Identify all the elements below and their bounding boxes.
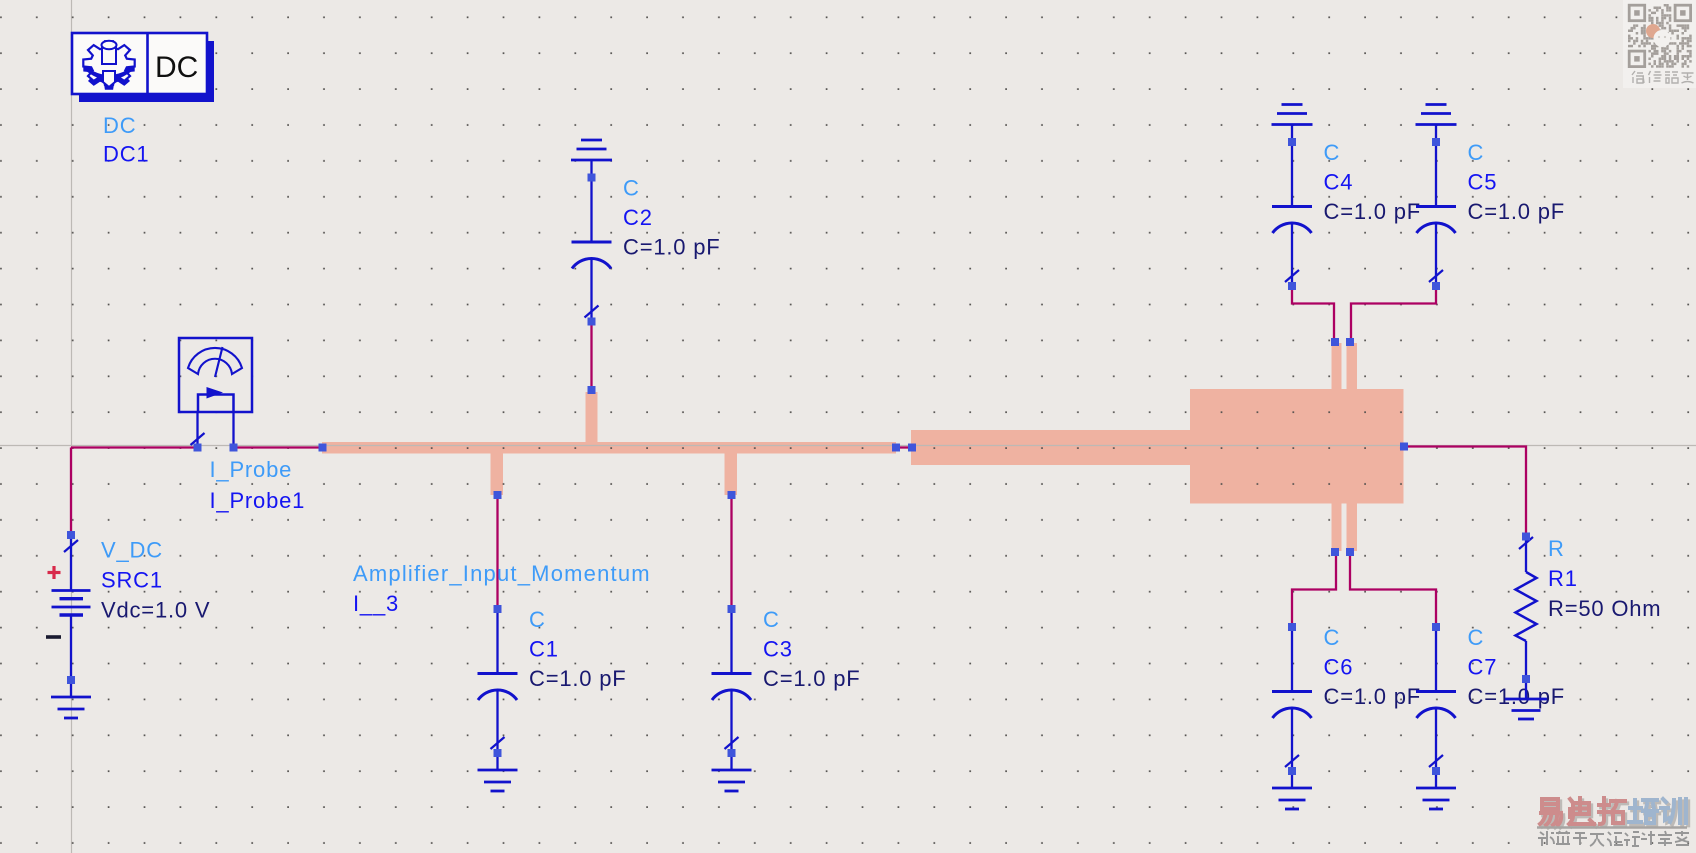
wire: [71, 446, 198, 448]
microstrip shunt stub up (to C2): [586, 392, 598, 444]
capacitor C1: [478, 609, 518, 753]
node: [1432, 138, 1440, 146]
wire: [730, 495, 732, 609]
svg-text:C: C: [1468, 625, 1485, 650]
capacitor C5: [1416, 142, 1456, 286]
wire: [234, 446, 323, 448]
training logo: [1540, 798, 1688, 827]
svg-text:I_Probe1: I_Probe1: [210, 488, 306, 513]
wire: [896, 446, 912, 448]
DC gear icon: [83, 41, 134, 90]
node: [728, 749, 736, 757]
schematic Y axis: [71, 0, 73, 853]
svg-text:C7: C7: [1468, 655, 1498, 680]
WeChat caption: [1632, 71, 1694, 83]
node: [1331, 548, 1339, 556]
svg-text:SRC1: SRC1: [101, 568, 163, 593]
svg-text:C=1.0 pF: C=1.0 pF: [529, 666, 627, 691]
svg-text:V_DC: V_DC: [101, 538, 163, 563]
svg-text:R1: R1: [1548, 566, 1578, 591]
DC simulation controller block: [72, 33, 214, 102]
node: [1522, 533, 1530, 541]
wire: [1350, 552, 1436, 627]
momentum patch block: [1190, 389, 1404, 504]
current probe I_Probe1: [179, 338, 252, 448]
svg-text:C5: C5: [1468, 170, 1498, 195]
ground for R1: [1505, 679, 1547, 719]
node: [67, 531, 75, 539]
plus sign: [48, 566, 61, 579]
capacitor C3: [712, 609, 752, 753]
svg-text:C: C: [623, 176, 640, 201]
svg-text:DC1: DC1: [103, 142, 149, 167]
node: [494, 605, 502, 613]
svg-text:C: C: [529, 607, 546, 632]
minus sign: [46, 635, 61, 639]
ground for C5: [1416, 105, 1457, 143]
svg-text:I_Probe: I_Probe: [210, 457, 293, 482]
capacitor C6: [1272, 627, 1312, 771]
ground for SRC1: [51, 680, 91, 718]
node: [1288, 282, 1296, 290]
svg-text:C=1.0 pF: C=1.0 pF: [1324, 684, 1422, 709]
capacitor C4: [1272, 142, 1312, 286]
microstrip thin input line: [322, 442, 896, 454]
node: [1400, 443, 1408, 451]
svg-text:C: C: [1324, 625, 1341, 650]
voltage source V_DC SRC1: [52, 535, 91, 680]
svg-text:Vdc=1.0 V: Vdc=1.0 V: [101, 598, 210, 623]
QR code overlay: [1623, 0, 1696, 88]
svg-text:C: C: [1468, 140, 1485, 165]
microstrip shunt stub down (to C3): [725, 453, 738, 495]
wire: [1404, 447, 1526, 537]
svg-text:C2: C2: [623, 205, 653, 230]
node: [494, 749, 502, 757]
ground for C6: [1272, 771, 1312, 809]
svg-text:C1: C1: [529, 637, 559, 662]
node: [319, 444, 327, 452]
node: [892, 444, 900, 452]
ground for C4: [1272, 105, 1313, 143]
patch bottom stub 2: [1347, 503, 1358, 551]
svg-text:C=1.0 pF: C=1.0 pF: [1324, 199, 1422, 224]
node: [1432, 767, 1440, 775]
node: [1288, 138, 1296, 146]
node: [1346, 548, 1354, 556]
ground for C7: [1416, 771, 1456, 809]
node: [728, 605, 736, 613]
microstrip shunt stub down (to C1): [491, 453, 504, 495]
node: [728, 491, 736, 499]
microstrip wide mid line: [911, 430, 1191, 465]
logo char xun: [1663, 801, 1688, 825]
node: [194, 444, 202, 452]
patch bottom stub 1: [1332, 503, 1342, 551]
resistor R1: [1516, 537, 1537, 680]
logo char di: [1571, 800, 1596, 826]
node: [588, 318, 596, 326]
node: [67, 676, 75, 684]
node: [908, 444, 916, 452]
ground for C3: [712, 753, 752, 791]
patch top stub 2: [1347, 343, 1358, 390]
wire: [70, 448, 72, 536]
node: [588, 386, 596, 394]
node: [1346, 338, 1354, 346]
svg-text:C: C: [763, 607, 780, 632]
patch top stub 1: [1332, 343, 1342, 390]
svg-text:R=50 Ohm: R=50 Ohm: [1548, 596, 1661, 621]
wire: [496, 495, 498, 609]
ground for C1: [478, 753, 518, 791]
node: [1432, 623, 1440, 631]
svg-text:C: C: [1324, 140, 1341, 165]
node: [1288, 623, 1296, 631]
capacitor C2: [572, 178, 612, 322]
logo char tuo: [1601, 800, 1627, 826]
logo char yi: [1542, 801, 1563, 827]
wire: [590, 322, 592, 391]
wire: [1292, 286, 1334, 342]
svg-text:I__3: I__3: [353, 591, 399, 616]
logo tagline: [1538, 831, 1689, 846]
node: [588, 174, 596, 182]
node: [494, 491, 502, 499]
svg-text:C4: C4: [1324, 170, 1354, 195]
node: [1288, 767, 1296, 775]
node: [230, 444, 238, 452]
svg-text:DC: DC: [155, 51, 198, 84]
node: [1331, 338, 1339, 346]
logo char pei: [1631, 802, 1659, 825]
ground for C2: [571, 140, 612, 178]
svg-text:C6: C6: [1324, 655, 1354, 680]
node: [1522, 675, 1530, 683]
wire: [1351, 286, 1436, 342]
svg-text:C=1.0 pF: C=1.0 pF: [623, 235, 721, 260]
node: [1432, 282, 1440, 290]
capacitor C7: [1416, 627, 1456, 771]
svg-text:C=1.0 pF: C=1.0 pF: [1468, 199, 1566, 224]
svg-text:C=1.0 pF: C=1.0 pF: [1468, 684, 1566, 709]
svg-text:C=1.0 pF: C=1.0 pF: [763, 666, 861, 691]
svg-text:C3: C3: [763, 637, 793, 662]
svg-text:DC: DC: [103, 113, 136, 138]
logo underline: [1537, 826, 1687, 828]
wire: [1292, 552, 1336, 627]
svg-text:Amplifier_Input_Momentum: Amplifier_Input_Momentum: [353, 561, 651, 586]
svg-text:R: R: [1548, 536, 1565, 561]
schematic X axis: [0, 445, 1696, 447]
